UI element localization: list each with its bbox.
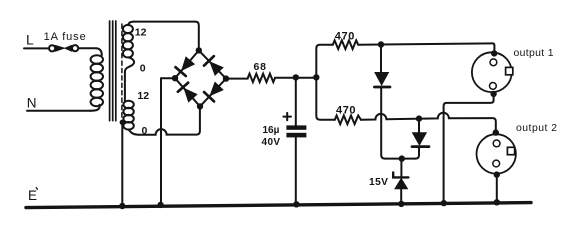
wire T-split up to R1	[316, 45, 333, 78]
wire N to primary	[27, 110, 91, 112]
fuse F1 1A	[44, 31, 87, 51]
transformer T1 primary winding	[90, 55, 103, 110]
diode D6	[412, 133, 429, 159]
rail junction dot (zener)	[398, 201, 404, 207]
label 470 (upper)	[335, 30, 355, 42]
diode D4 (bottom-right arm, cathode to bottom node)	[204, 82, 223, 101]
label 15V	[369, 177, 388, 188]
diode D3 (top-right arm, cathode to top node)	[204, 56, 223, 75]
svg-text:0: 0	[140, 63, 146, 75]
screen earth wire	[121, 124, 123, 206]
capacitor polarity +	[283, 113, 291, 120]
secondary centre jog (0/12 tap)	[125, 57, 134, 100]
clamp bus wire	[385, 158, 415, 160]
wire secondary top to bridge top	[134, 22, 199, 50]
svg-text:470: 470	[335, 30, 355, 42]
rail junction dot (output2)	[494, 199, 500, 205]
junction dot (output1 bottom)	[490, 91, 496, 97]
resistor R2 470	[335, 116, 361, 125]
junction dot (15V zener top)	[399, 155, 405, 161]
electrostatic screen (dashed)	[121, 24, 123, 118]
wire output2 to rail	[496, 175, 498, 203]
label 12 (secondary lower)	[137, 90, 149, 102]
svg-text:1A fuse: 1A fuse	[44, 31, 87, 43]
wire fuse to primary	[78, 48, 101, 55]
rail junction dot (cap)	[293, 201, 299, 207]
terminal E	[28, 188, 37, 203]
rail junction dot (bridge)	[157, 202, 163, 208]
wire bridge minus to rail	[160, 78, 162, 205]
capacitor C1 lead top	[295, 77, 297, 125]
wire R2 to output 2 (with two hops)	[361, 113, 496, 132]
diode D6 lead	[418, 119, 420, 133]
junction dot (output1 top)	[491, 50, 497, 56]
label 12 (secondary top)	[135, 27, 147, 39]
capacitor C1 16µ 40V	[286, 125, 306, 137]
diode D2 (bottom-left arm, cathode to left node)	[178, 83, 197, 102]
capacitor C1 lead bottom	[295, 137, 297, 205]
wire secondary 0 to bridge bottom (with hop)	[139, 108, 200, 135]
svg-text:L: L	[26, 31, 34, 47]
svg-text:output 2: output 2	[516, 123, 558, 134]
wire R1 to output 1	[358, 43, 494, 52]
transformer secondary upper winding	[123, 22, 134, 58]
label 68	[254, 61, 267, 73]
diode D1 (top-left arm, cathode to left node)	[176, 57, 195, 76]
junction node (T-split)	[313, 74, 319, 80]
transformer secondary lower winding	[123, 101, 139, 135]
svg-text:12: 12	[135, 27, 147, 39]
screen junction dot	[120, 120, 125, 125]
svg-text:E: E	[28, 188, 37, 203]
bridge diamond arms	[175, 50, 199, 78]
junction node (cap top)	[293, 74, 299, 80]
apostrophe mark above E	[36, 188, 37, 190]
earth rail	[26, 203, 531, 208]
zener D7 15V lead	[400, 159, 402, 177]
output 2 connector	[477, 134, 516, 173]
rail junction dot	[441, 200, 447, 206]
label output 1	[514, 48, 554, 59]
junction dot (output2 top)	[493, 129, 499, 135]
output 1 connector	[472, 52, 513, 92]
zener D7 15V	[393, 172, 408, 203]
wire resistor to T-split	[275, 77, 316, 79]
label 0 (secondary upper tap)	[140, 63, 146, 75]
resistor R1 470	[333, 40, 358, 49]
label 470 (lower)	[336, 105, 356, 117]
terminal N	[27, 96, 37, 111]
svg-text:12: 12	[137, 90, 149, 102]
svg-text:40V: 40V	[262, 137, 281, 148]
bridge left node stub	[161, 77, 175, 79]
wire bridge plus to resistor	[226, 78, 248, 80]
wire L to fuse	[24, 47, 49, 49]
svg-text:N: N	[27, 96, 37, 111]
svg-text:output 1: output 1	[514, 48, 554, 59]
junction dot (diode D6 top)	[416, 115, 422, 121]
label output 2	[516, 123, 558, 134]
resistor 6Ω8	[248, 74, 275, 82]
bridge bottom node	[197, 103, 203, 109]
svg-text:470: 470	[336, 105, 356, 117]
svg-text:15V: 15V	[369, 177, 388, 188]
label 16µ	[263, 125, 280, 136]
zener D5	[374, 72, 390, 158]
wire T-split down to R2	[316, 77, 335, 119]
rail junction dot (screen)	[119, 203, 125, 209]
zener D5 lead	[380, 45, 382, 73]
junction dot (output2 bottom)	[494, 171, 500, 177]
bridge top node	[196, 47, 202, 53]
bridge right node	[223, 75, 229, 81]
svg-text:68: 68	[254, 61, 267, 73]
label 40V	[262, 137, 281, 148]
transformer core	[110, 21, 116, 121]
bridge left node	[172, 75, 178, 81]
terminal L	[26, 31, 34, 47]
wire output1 to rail	[444, 94, 494, 203]
junction dot (zener1 top)	[378, 41, 384, 47]
label 0 (secondary bottom)	[142, 125, 148, 137]
svg-text:16µ: 16µ	[263, 125, 280, 136]
